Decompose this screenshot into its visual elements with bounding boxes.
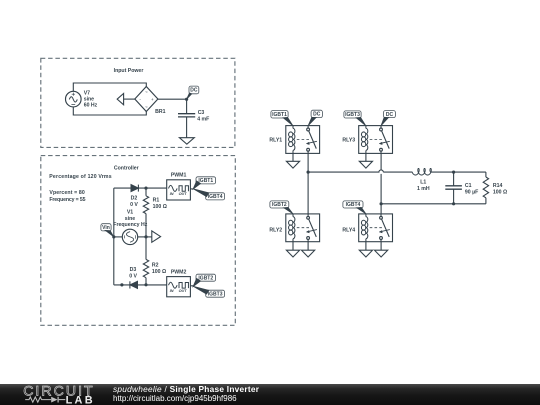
svg-text:Frequency Hz: Frequency Hz [113, 222, 147, 228]
svg-text:100 Ω: 100 Ω [153, 204, 167, 210]
svg-text:DC: DC [190, 88, 198, 94]
svg-text:RLY3: RLY3 [342, 137, 355, 143]
svg-text:D2: D2 [131, 196, 138, 202]
svg-text:0 V: 0 V [130, 202, 138, 208]
svg-text:IN: IN [170, 192, 174, 196]
svg-text:Vpercent = 80: Vpercent = 80 [49, 190, 84, 196]
svg-text:R2: R2 [152, 263, 159, 269]
svg-text:C1: C1 [465, 183, 472, 189]
svg-text:100 Ω: 100 Ω [152, 269, 166, 275]
svg-text:BR1: BR1 [155, 109, 165, 115]
svg-text:OUT: OUT [179, 289, 188, 293]
svg-text:R1: R1 [153, 197, 160, 203]
svg-text:IGBT3: IGBT3 [208, 291, 223, 297]
svg-text:IGBT2: IGBT2 [198, 275, 213, 281]
svg-text:LAB: LAB [66, 395, 95, 405]
svg-text:PWM2: PWM2 [171, 270, 187, 276]
svg-text:OUT: OUT [179, 192, 188, 196]
svg-text:IGBT1: IGBT1 [272, 112, 287, 118]
svg-text:DC: DC [313, 112, 321, 118]
svg-text:IGBT4: IGBT4 [208, 194, 223, 200]
svg-text:+: + [151, 97, 154, 102]
svg-text:L1: L1 [420, 179, 426, 185]
svg-text:60 Hz: 60 Hz [84, 102, 98, 108]
svg-text:PWM1: PWM1 [171, 173, 187, 179]
svg-text:RLY1: RLY1 [269, 137, 282, 143]
svg-text:D3: D3 [130, 267, 137, 273]
svg-text:Input Power: Input Power [114, 68, 144, 74]
svg-text:0 V: 0 V [129, 274, 137, 280]
svg-text:DC: DC [386, 112, 394, 118]
svg-text:RLY4: RLY4 [342, 227, 355, 233]
svg-text:Percentage of 120 Vrms: Percentage of 120 Vrms [49, 174, 112, 180]
svg-text:4 mF: 4 mF [197, 117, 209, 123]
svg-text:90 µF: 90 µF [465, 189, 478, 195]
svg-text:Controller: Controller [114, 165, 139, 171]
svg-text:IN: IN [170, 289, 174, 293]
svg-text:~: ~ [145, 105, 148, 110]
svg-text:RLY2: RLY2 [269, 227, 282, 233]
svg-text:sine: sine [125, 216, 135, 222]
svg-text:V1: V1 [127, 209, 133, 215]
svg-text:~: ~ [145, 90, 148, 95]
svg-text:100 Ω: 100 Ω [493, 189, 507, 195]
svg-text:C3: C3 [198, 110, 205, 116]
svg-text:R14: R14 [493, 183, 503, 189]
svg-text:Frequency = 55: Frequency = 55 [49, 197, 85, 203]
svg-text:1 mH: 1 mH [417, 186, 430, 192]
